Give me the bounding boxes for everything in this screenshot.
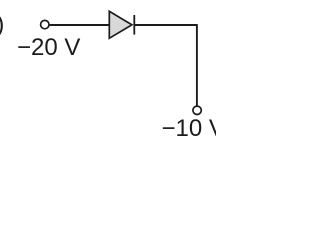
terminal T2 (output, -10 V): [193, 106, 201, 114]
terminal T1 (input, -20 V): [41, 20, 49, 28]
wire corner down to terminal T2: [196, 24, 198, 106]
diode D1 cathode bar: [133, 15, 135, 35]
wire from T1 to diode anode: [50, 24, 109, 26]
label -10 V: [162, 115, 225, 143]
label -20 V: [17, 34, 80, 62]
svg-text:): ): [0, 11, 4, 38]
diode D1 triangle (anode): [109, 11, 132, 38]
wire from diode cathode to corner: [134, 24, 197, 26]
